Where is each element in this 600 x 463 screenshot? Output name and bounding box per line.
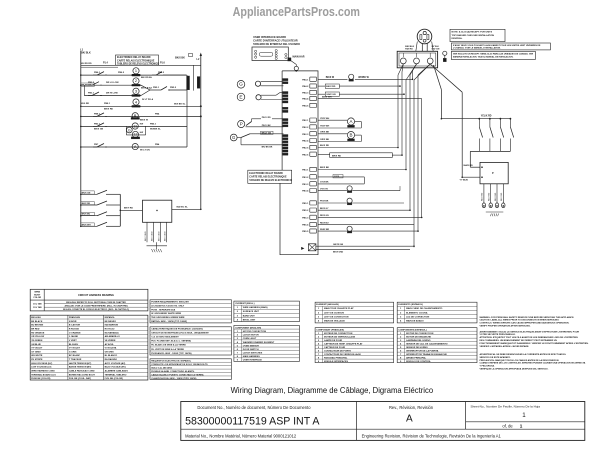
svg-text:CURRENT (ENGL.): CURRENT (ENGL.): [235, 303, 255, 305]
svg-text:CARTE RELAIS ELECTRONIQUE: CARTE RELAIS ELECTRONIQUE: [117, 59, 155, 62]
svg-text:USER INTERFACE: USER INTERFACE: [243, 359, 263, 362]
svg-text:FIL BLANC DE MISE A LA TERRE: FIL BLANC DE MISE A LA TERRE: [151, 344, 186, 347]
ground for relay module: [147, 242, 168, 252]
svg-text:ALAMBRE CABLEADO: ALAMBRE CABLEADO: [105, 369, 129, 372]
svg-text:R ROUGE: R ROUGE: [69, 329, 80, 331]
avertissement paragraph (french): [480, 330, 589, 348]
loop row 177-184: [318, 175, 364, 184]
svg-text:RA RAYADO: RA RAYADO: [105, 358, 118, 361]
svg-text:AZ AZUL: AZ AZUL: [105, 343, 115, 346]
svg-text:Rev., Révision, Revisión: Rev., Révision, Revisión: [389, 405, 434, 410]
svg-text:GN BLUE: GN BLUE: [31, 344, 41, 346]
svg-text:BROIL UNIT: BROIL UNIT: [243, 319, 256, 321]
svg-text:PB4.2: PB4.2: [302, 85, 309, 88]
wire row 224: [318, 222, 414, 224]
svg-text:3: 3: [318, 317, 320, 319]
svg-text:FONCTIONNEMENT INADEQUAT ET DA: FONCTIONNEMENT INADEQUAT ET DANGEREUX. V…: [480, 342, 589, 345]
svg-text:AppliancePartsPros.com: AppliancePartsPros.com: [233, 5, 360, 19]
svg-text:BK/X BK: BK/X BK: [320, 167, 329, 169]
note box N1: [450, 29, 505, 41]
element anglais table: [315, 302, 394, 323]
svg-text:NE NEGRO: NE NEGRO: [105, 321, 117, 323]
svg-text:PB.1/ RD: PB.1/ RD: [262, 117, 271, 119]
svg-text:BK/X GN: BK/X GN: [82, 192, 91, 194]
svg-text:SURFACE UNIT: SURFACE UNIT: [243, 310, 260, 313]
svg-text:CONTROLS. WIRING ERRORS CAN CA: CONTROLS. WIRING ERRORS CAN CAUSE IMPROP…: [480, 322, 570, 325]
svg-text:W/X BK SL: W/X BK SL: [174, 104, 186, 106]
svg-text:MAIN DE VEILLAGE: MAIN DE VEILLAGE: [324, 320, 345, 323]
svg-text:DR HI LOW: DR HI LOW: [106, 92, 119, 94]
componente table: [397, 328, 477, 363]
relay module pins + labels: [145, 222, 167, 242]
svg-text:2: 2: [318, 312, 320, 314]
svg-text:4: 4: [318, 320, 320, 323]
svg-text:W/ WH: W/ WH: [432, 46, 439, 48]
svg-text:CIRCUIT DE MONOPHASE (VOLT) SE: CIRCUIT DE MONOPHASE (VOLT) SEUL. UNIQUE…: [151, 332, 209, 335]
svg-text:MA MARRON: MA MARRON: [105, 324, 119, 327]
svg-text:PUISSANCE: 8KW - 12KW (TYP. 10: PUISSANCE: 8KW - 12KW (TYP. 10KW): [151, 352, 192, 355]
svg-text:3: 3: [400, 317, 402, 319]
svg-text:PB.1/ BK: PB.1/ BK: [262, 125, 271, 127]
svg-text:PB2.2: PB2.2: [302, 127, 309, 129]
svg-text:MODULE INTERFACES: MODULE INTERFACES: [324, 360, 348, 363]
svg-text:1: 1: [400, 308, 402, 310]
svg-text:CAUTION: LABEL ALL WIRES PRIOR: CAUTION: LABEL ALL WIRES PRIOR TO DISCON…: [480, 319, 560, 322]
svg-text:WIRE HARNESS COND: WIRE HARNESS COND: [31, 369, 55, 372]
svg-text:T TRACEUR: T TRACEUR: [69, 358, 82, 361]
svg-text:OR/X BK: OR/X BK: [320, 139, 330, 141]
svg-text:DES COMMANDES. UN BRANCHEMENT: DES COMMANDES. UN BRANCHEMENT INCORRECT …: [480, 339, 558, 342]
svg-text:RO ROJO: RO ROJO: [105, 329, 115, 331]
drawing title text: [231, 385, 434, 395]
svg-text:CUANDO REPARE DE LOS CONTROLES: CUANDO REPARE DE LOS CONTROLES. ERRORES …: [480, 362, 586, 365]
node L1 label: [80, 48, 91, 55]
svg-text:P: P: [492, 172, 494, 175]
svg-text:WH/X BR: WH/X BR: [320, 229, 330, 231]
terminal board TB1: [397, 51, 437, 68]
svg-text:HAUTE TENSION (HT): HAUTE TENSION (HT): [69, 362, 92, 365]
svg-text:AVERTISSEMENT: ISOLEZ LE SERVI: AVERTISSEMENT: ISOLEZ LE SERVICE ELECTRI…: [480, 330, 580, 333]
svg-text:VERIFY PROPER OPERATION AFTER: VERIFY PROPER OPERATION AFTER SERVICING.: [480, 325, 531, 328]
svg-text:NOTE: A 14-30 (4) RECEPT. FOR: NOTE: A 14-30 (4) RECEPT. FOR UNITS: [452, 31, 493, 34]
svg-text:LOW VOLTAGE (LV): LOW VOLTAGE (LV): [31, 366, 51, 369]
svg-text:PB5.1: PB5.1: [302, 203, 309, 205]
terminal board screws: [400, 53, 433, 64]
svg-text:PB3.1: PB3.1: [88, 92, 95, 94]
svg-text:PB5.3: PB5.3: [302, 217, 309, 219]
svg-text:LEVY DE CONVECTION: LEVY DE CONVECTION: [324, 317, 349, 319]
fuse F1 on line W/BL W: [318, 71, 413, 82]
svg-text:S'ASSY NEUX VOUS POUVANT LIAGE: S'ASSY NEUX VOUS POUVANT LIAGE KABEST PO…: [453, 44, 541, 47]
svg-text:FIL VERT DE MISE A LA TERRE: FIL VERT DE MISE A LA TERRE: [151, 348, 184, 351]
svg-text:BAJO VOLTAJE (BV): BAJO VOLTAJE (BV): [105, 366, 126, 369]
svg-text:BK/X WH: BK/X WH: [82, 224, 92, 226]
connector bar CN-A (black): [187, 76, 190, 90]
wire rung 7 + switch + lamp 11: [81, 123, 187, 131]
svg-text:NA NARANJA: NA NARANJA: [105, 331, 120, 334]
svg-text:BK/X RD: BK/X RD: [104, 109, 113, 111]
svg-text:PB4: PB4: [155, 143, 160, 146]
svg-text:OR/X BK: OR/X BK: [320, 132, 330, 134]
svg-text:GY/X BK: GY/X BK: [320, 182, 329, 184]
connector MAIN HAR: [288, 56, 305, 62]
svg-text:G GRIS: G GRIS: [69, 351, 77, 353]
wire vertical right collector x187: [186, 75, 188, 147]
svg-text:FUSE BK (COLOR): FUSE BK (COLOR): [31, 378, 50, 380]
svg-text:VT VIOLET: VT VIOLET: [31, 348, 43, 350]
wire color legend header table: [30, 289, 148, 311]
svg-text:BK BLACK: BK BLACK: [31, 320, 43, 323]
svg-text:GN/YE GN: GN/YE GN: [333, 244, 344, 246]
wire row 147 long: [318, 145, 398, 147]
svg-text:11: 11: [133, 123, 137, 128]
svg-text:PB5.2: PB5.2: [302, 210, 309, 212]
elemento table: [397, 302, 477, 323]
svg-text:PB8.1: PB8.1: [94, 113, 101, 115]
title block frame: [181, 402, 585, 441]
svg-text:3: 3: [135, 89, 137, 94]
svg-text:PB7: PB7: [94, 144, 99, 146]
svg-text:BAKE UNIT: BAKE UNIT: [243, 314, 256, 317]
svg-text:GR GRIS: GR GRIS: [105, 351, 115, 353]
svg-text:ALTO VOLTAJE (AV): ALTO VOLTAJE (AV): [105, 362, 126, 365]
svg-text:VERIFIEZ L'APPAREIL APRES L'AV: VERIFIEZ L'APPAREIL APRES L'AVOIR REPARE…: [480, 345, 530, 348]
svg-text:FUSE - SEPARATE 40A: FUSE - SEPARATE 40A: [151, 308, 175, 311]
svg-text:RD/X RD: RD/X RD: [482, 192, 484, 201]
svg-text:B: B: [134, 113, 137, 118]
plug neck wires: [416, 42, 433, 52]
svg-text:2: 2: [237, 311, 239, 313]
wire rung 1 (relay board feed): [81, 54, 201, 68]
svg-text:W/XBK SL: W/XBK SL: [150, 129, 161, 131]
electronic relay board note box: [248, 170, 292, 183]
svg-text:VT VIOLET: VT VIOLET: [69, 348, 81, 350]
svg-text:Wiring Diagram, Diagramme de C: Wiring Diagram, Diagramme de Câblage, Di…: [231, 385, 434, 395]
svg-text:VER INCLUYE UN RECEPT. NEMA 14: VER INCLUYE UN RECEPT. NEMA 14-30 PARA L…: [453, 52, 534, 55]
svg-text:Material No., Nombre Matérial,: Material No., Nombre Matérial, Número Ma…: [185, 434, 297, 439]
lamp on row 231: [318, 226, 418, 233]
svg-text:4: 4: [400, 320, 402, 323]
connector bar CN-B (black): [197, 77, 200, 89]
svg-text:PB4.3: PB4.3: [302, 92, 309, 95]
svg-text:PB5.5: PB5.5: [302, 231, 309, 233]
requisitos block (spanish): [150, 359, 231, 380]
harness node junction: [294, 66, 298, 71]
power requirements block (english): [150, 300, 231, 323]
svg-text:GY/X: GY/X: [334, 176, 340, 178]
heater ground bracket: [486, 212, 504, 216]
svg-text:Y PELIGROSA.: Y PELIGROSA.: [480, 365, 496, 368]
svg-text:PB5.2: PB5.2: [170, 87, 177, 89]
wire row 169: [318, 167, 406, 169]
user interface board U2 label: [253, 35, 300, 46]
svg-text:W. GROUNDED WHITE WIRE: W. GROUNDED WHITE WIRE: [151, 313, 181, 315]
svg-text:MODULO DE CONTROL: MODULO DE CONTROL: [406, 361, 431, 363]
svg-text:BC BLANC: BC BLANC: [69, 354, 81, 357]
note box N2: [451, 43, 550, 50]
svg-text:A 120/240VOLT AC/60 HZ. ONLY: A 120/240VOLT AC/60 HZ. ONLY: [151, 304, 185, 307]
svg-text:BR/X RD: BR/X RD: [332, 155, 341, 157]
svg-text:1: 1: [520, 424, 523, 429]
svg-text:RD ORANGE: RD ORANGE: [31, 331, 45, 334]
title block engineering revision: [362, 434, 502, 439]
svg-text:ENGLISH: REFER TO DOLL SECTION: ENGLISH: REFER TO DOLL SECTIONAL CODE IN…: [66, 301, 126, 304]
title block rev: [389, 405, 434, 425]
heater box pins: [482, 184, 505, 208]
heater control box U3: [480, 162, 508, 183]
user interface board U2: [252, 47, 288, 61]
harness bundle verticals: [398, 72, 422, 247]
svg-text:PB2.6: PB2.6: [302, 154, 309, 156]
indicator E (ring terminal): [237, 93, 283, 101]
svg-text:HW: HW: [140, 132, 143, 134]
svg-text:YE/X WH: YE/X WH: [320, 118, 330, 120]
svg-text:2: 2: [135, 78, 137, 83]
svg-text:ELEMENT (ANGLAIS): ELEMENT (ANGLAIS): [316, 303, 339, 306]
wire rung 5 (PB8 long) + pilot 4: [81, 99, 202, 111]
svg-text:YE/X WH: YE/X WH: [320, 126, 330, 128]
svg-text:BL BLEU: BL BLEU: [69, 344, 79, 346]
svg-text:ESPANOL: ESPANOL: [105, 316, 116, 319]
svg-text:BK/X W: BK/X W: [326, 77, 335, 79]
svg-text:ATTENTION: ETIQUETEZ TOUT LES: ATTENTION: ETIQUETEZ TOUT LES FILS AVANT…: [480, 336, 579, 339]
svg-text:ADVERTENCIA: SE DEBE DESENCHUF: ADVERTENCIA: SE DEBE DESENCHUFAR LA CORR…: [480, 353, 567, 356]
svg-text:BK/ BLK: BK/ BLK: [81, 52, 91, 55]
svg-text:BK/X BK: BK/X BK: [175, 57, 185, 60]
svg-text:MA/X RD: MA/X RD: [464, 164, 474, 167]
svg-text:E: E: [239, 94, 242, 100]
svg-text:Sheet-No., Nombre De Feuille,: Sheet-No., Nombre De Feuille, Número De …: [471, 405, 541, 409]
svg-text:CLASIFICACION: 8KW - 12KW (TIP: CLASIFICACION: 8KW - 12KW (TIPO 10KW): [151, 377, 196, 380]
wire rung 8 + switch PB7 + pilot A: [81, 143, 187, 151]
strip left connectors (black): [283, 79, 288, 156]
wire row 3 boxed label: [318, 92, 404, 96]
svg-text:BASSE TENSION (BT): BASSE TENSION (BT): [69, 366, 92, 369]
svg-text:PB5.1: PB5.1: [153, 87, 160, 89]
svg-text:MI. RD RD: MI. RD RD: [81, 63, 92, 65]
svg-text:L2: L2: [197, 58, 200, 61]
svg-text:BK/X GND: BK/X GND: [145, 231, 147, 241]
electronic relay board label box: [116, 55, 160, 65]
svg-text:RD/X GN: RD/X GN: [320, 215, 329, 217]
svg-text:ENGLISH: ENGLISH: [31, 317, 41, 319]
svg-text:BK/LT GN: BK/LT GN: [262, 133, 272, 135]
svg-text:WARNING: FOR PERSONAL SAFETY R: WARNING: FOR PERSONAL SAFETY REMOVE FUSE…: [480, 316, 575, 319]
svg-text:BL BLANCO: BL BLANCO: [105, 354, 118, 357]
svg-text:J JAUNE: J JAUNE: [69, 335, 79, 338]
advertencia paragraph (spanish): [480, 353, 586, 371]
svg-text:PB3.3: PB3.3: [302, 184, 309, 186]
svg-text:PB3.1: PB3.1: [94, 123, 101, 125]
svg-text:O ORANGE: O ORANGE: [69, 331, 81, 334]
svg-text:C.A. 40 60HZ SEULEMENT: C.A. 40 60HZ SEULEMENT: [151, 336, 179, 339]
svg-text:CARTE RELAIS ELECTRONIQUE: CARTE RELAIS ELECTRONIQUE: [249, 175, 287, 178]
svg-text:BK/Y RD: BK/Y RD: [124, 208, 133, 210]
svg-text:DESPEJA.: DESPEJA.: [452, 37, 463, 40]
svg-text:PB4.1: PB4.1: [302, 78, 309, 81]
svg-text:G: G: [232, 135, 235, 140]
wire jog rung3-rung4: [83, 85, 85, 95]
svg-text:G: G: [128, 128, 131, 132]
svg-text:ANGLAIS: VOIR LE CODE PRESTRIP: ANGLAIS: VOIR LE CODE PRESTRIPAIRE. (INC…: [64, 305, 127, 308]
power plug P1: [417, 29, 432, 44]
svg-text:PRECAUCION: MARQUE TODOS LOS C: PRECAUCION: MARQUE TODOS LOS CABLES ANTE…: [480, 359, 560, 362]
svg-text:RD/X RD: RD/X RD: [489, 192, 491, 201]
branch lamps G and 12: [126, 126, 145, 138]
component english table: [234, 326, 300, 362]
wire rung 2 + switch PB6 + pilot 1: [81, 68, 187, 79]
svg-text:OR YELLOW: OR YELLOW: [31, 336, 45, 338]
svg-text:MANERA INSTALACION. VEA EL MAN: MANERA INSTALACION. VEA EL MANUAL DE INS…: [453, 55, 514, 58]
svg-text:AM AMARILLO: AM AMARILLO: [105, 335, 120, 338]
svg-text:HIGH VOLTAGE (HV): HIGH VOLTAGE (HV): [31, 362, 52, 365]
svg-text:BK/ BK BK: BK/ BK BK: [262, 146, 273, 148]
svg-text:PB6.2: PB6.2: [118, 72, 125, 74]
svg-text:PB3.2: PB3.2: [302, 177, 309, 179]
svg-text:BK/ RD BL: BK/ RD BL: [141, 77, 153, 79]
svg-text:USER INTERFACE BOARD: USER INTERFACE BOARD: [253, 35, 286, 39]
svg-text:1: 1: [522, 412, 526, 419]
wire row 2 boxed label: [318, 84, 400, 88]
svg-text:1: 1: [318, 308, 320, 310]
svg-text:PK/X BK: PK/X BK: [320, 201, 329, 203]
svg-text:GN/ GN: GN/ GN: [432, 49, 440, 51]
warning paragraph (english): [480, 316, 575, 328]
svg-text:BK/X RD: BK/X RD: [326, 86, 335, 88]
wire rung 4 + switch PB3 + pilot 3: [84, 88, 153, 101]
svg-text:BK/X BU: BK/X BU: [82, 214, 91, 216]
composant francais table: [315, 328, 394, 363]
svg-text:PB2.1: PB2.1: [302, 120, 309, 122]
caracteristiques block (french): [150, 327, 231, 355]
svg-text:MAIN CHEM. DE CALENTAMIENTO: MAIN CHEM. DE CALENTAMIENTO: [406, 307, 443, 310]
svg-text:12: 12: [133, 132, 137, 137]
strip terminal boxes PB rows: [302, 77, 316, 233]
wire terminal to heater feeds (diagonals): [430, 64, 462, 177]
svg-text:PB5.1: PB5.1: [150, 123, 157, 125]
svg-text:ELEMENTO (ESPANOL): ELEMENTO (ESPANOL): [398, 303, 423, 306]
svg-text:TOP DANGER CHES SEE INSTALLATI: TOP DANGER CHES SEE INSTALLATION: [452, 34, 495, 37]
svg-text:CIRCUIT HARNESS DRAWING: CIRCUIT HARNESS DRAWING: [78, 294, 114, 297]
svg-text:MUST: MUST: [34, 294, 41, 296]
svg-text:COLOR: COLOR: [33, 297, 41, 299]
svg-text:W/ LT GN: W/ LT GN: [140, 149, 150, 151]
svg-text:N NOIR: N NOIR: [69, 321, 77, 323]
svg-text:4: 4: [135, 99, 138, 104]
svg-text:RATING: 8KW - 12KW (TYP. 10KW): RATING: 8KW - 12KW (TYP. 10KW): [151, 320, 187, 323]
svg-text:PB2.4: PB2.4: [302, 140, 309, 143]
svg-text:FUS. BK (COUL. RAY): FUS. BK (COUL. RAY): [69, 377, 91, 380]
svg-text:BK/X GND: BK/X GND: [158, 231, 160, 241]
ground terminal lug: [443, 51, 447, 62]
svg-text:BK/X GND: BK/X GND: [152, 231, 154, 241]
wire right bus: [197, 53, 203, 210]
svg-text:PB4: PB4: [155, 112, 160, 115]
svg-text:PB5.4: PB5.4: [302, 224, 309, 227]
svg-text:MA/ BC SL: MA/ BC SL: [177, 206, 189, 209]
svg-text:P: P: [240, 121, 243, 126]
wire ground row from X box: [316, 244, 414, 253]
svg-text:MAIN DE ASADO: MAIN DE ASADO: [406, 320, 424, 323]
switch block S1-S4: [81, 190, 121, 226]
svg-text:CARACTERISTIQUES DE PUISSANCE:: CARACTERISTIQUES DE PUISSANCE: (120/240V…: [151, 328, 203, 331]
strip terminal box with X (ground): [301, 244, 316, 251]
wire relay module output: [172, 206, 201, 210]
svg-text:MAIN HAR: MAIN HAR: [293, 56, 305, 59]
svg-text:of, de: of, de: [502, 424, 513, 429]
current english table: [234, 301, 300, 322]
indicator G (ring terminal): [237, 81, 283, 89]
connector B loop: [318, 132, 361, 142]
lamp on row 203: [318, 198, 404, 205]
svg-text:L'CHANGA. VOIR LE MANUEL D'INS: L'CHANGA. VOIR LE MANUEL D'INSTALLATION.: [453, 47, 501, 50]
surface switches SW1-SW4: [478, 118, 513, 152]
svg-text:COL TAB: COL TAB: [33, 303, 42, 306]
svg-text:VERIFIQUE LA OPERACION APROPIA: VERIFIQUE LA OPERACION APROPIADA DESPUES…: [480, 368, 549, 371]
svg-text:GY GRAY: GY GRAY: [31, 350, 41, 353]
main harness terminal strip outline: [280, 71, 318, 255]
svg-text:WH WHITE: WH WHITE: [31, 355, 43, 357]
svg-text:TABLERO DE INTERFAZ DEL USUARI: TABLERO DE INTERFAZ DEL USUARIO: [253, 43, 300, 46]
wire row 217: [318, 215, 422, 217]
harness sleeve bar: [318, 153, 402, 158]
svg-text:1: 1: [135, 68, 137, 73]
svg-text:BR RED: BR RED: [31, 329, 40, 331]
svg-text:4: 4: [237, 318, 239, 321]
svg-text:YEL/X RD: YEL/X RD: [481, 115, 492, 117]
svg-text:INGLES: CONECTE EL CODIGO ELEC: INGLES: CONECTE EL CODIGO ELECTRICO. (IN…: [63, 308, 129, 311]
svg-text:BK/X GND: BK/X GND: [333, 252, 344, 254]
svg-text:A: A: [406, 414, 413, 425]
svg-text:RD/X BU: RD/X BU: [320, 222, 329, 224]
svg-text:THE GROUNDING GREEN WIRE: THE GROUNDING GREEN WIRE: [151, 317, 185, 319]
svg-text:BU/X RD: BU/X RD: [320, 145, 329, 147]
wire color legend main table: [30, 315, 148, 380]
svg-text:RD/X RD: RD/X RD: [501, 192, 503, 201]
wire vertical join: [193, 65, 195, 90]
title block document no: [185, 405, 320, 427]
svg-text:LUZ DE CONVECTION: LUZ DE CONVECTION: [406, 317, 430, 319]
svg-text:VOTRE SECURITE PERSONNELLE.: VOTRE SECURITE PERSONNELLE.: [480, 334, 516, 336]
svg-text:PB3.1: PB3.1: [302, 170, 309, 172]
svg-text:MI.0 RD: MI.0 RD: [81, 103, 89, 105]
svg-text:58300000117519 ASP INT A: 58300000117519 ASP INT A: [185, 415, 320, 427]
relay module K1: [143, 200, 172, 222]
note box N3: [451, 51, 535, 59]
svg-text:MI. TK RD: MI. TK RD: [82, 85, 92, 87]
svg-text:CABLE FAISCEAU COND: CABLE FAISCEAU COND: [69, 369, 95, 372]
svg-text:PB2.5: PB2.5: [302, 148, 309, 150]
connector A loop: [318, 118, 361, 128]
wire left bus L1: [80, 51, 82, 194]
svg-text:TERMINAL TABLERO: TERMINAL TABLERO: [105, 373, 127, 376]
svg-text:WIRE: WIRE: [34, 292, 40, 294]
svg-text:DR LO LOW: DR LO LOW: [106, 82, 119, 84]
svg-text:RD/ RD: RD/ RD: [405, 49, 413, 51]
svg-text:FUS. BK (COLOR): FUS. BK (COLOR): [105, 378, 124, 380]
switch P: [238, 117, 284, 127]
wire rung 3 + switch PB2 + pilot 2: [81, 78, 187, 90]
svg-text:R/ LT PK A: R/ LT PK A: [142, 98, 153, 101]
wire UI board to harness node: [291, 61, 296, 66]
svg-text:Engineering Revision, Révision: Engineering Revision, Révision de Techno…: [362, 434, 502, 439]
wire row 4: [318, 96, 422, 98]
title block material no: [185, 434, 297, 439]
svg-text:PB2.3: PB2.3: [302, 134, 309, 136]
svg-text:P1.6: P1.6: [160, 63, 165, 65]
svg-text:VI VIOLETA: VI VIOLETA: [105, 347, 117, 350]
svg-text:A: A: [134, 144, 137, 149]
